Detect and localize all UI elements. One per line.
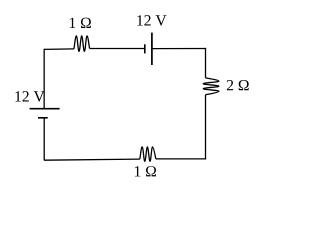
label 2 ohm (right resistor R2) xyxy=(227,80,249,90)
label 12 V (left battery V1) xyxy=(15,91,44,102)
resistor R3 (1 ohm, bottom) xyxy=(140,147,156,161)
wire top-right segment xyxy=(152,48,206,50)
battery V2 (12 V, top) short plate xyxy=(144,44,146,53)
wire left-upper segment xyxy=(43,49,45,109)
battery V1 (12 V, left) long plate xyxy=(30,108,60,110)
label 1 ohm (top resistor R1) xyxy=(70,18,91,28)
wire bottom-left segment xyxy=(44,159,140,160)
wire left-lower segment xyxy=(43,118,45,161)
resistor R2 (2 ohm, right) xyxy=(203,78,219,95)
resistor R1 (1 ohm, top) xyxy=(74,36,90,52)
wire right-upper segment xyxy=(205,48,207,78)
wire bottom-right segment xyxy=(156,158,206,160)
battery V2 (12 V, top) long plate xyxy=(151,33,153,65)
wire top-middle segment xyxy=(90,48,145,50)
battery V1 (12 V, left) short plate xyxy=(38,117,48,119)
wire top-left segment xyxy=(44,48,74,51)
label 1 ohm (bottom resistor R3) xyxy=(135,166,156,176)
label 12 V (top battery V2) xyxy=(137,15,166,26)
wire right-lower segment xyxy=(205,95,207,160)
